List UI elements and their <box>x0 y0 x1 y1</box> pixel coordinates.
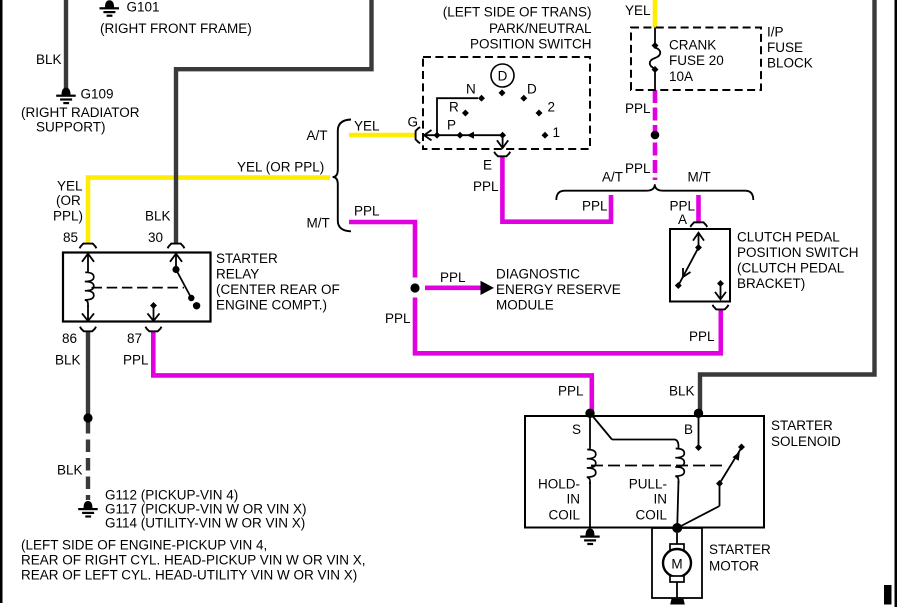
svg-text:S: S <box>572 422 581 437</box>
svg-text:I/P: I/P <box>767 25 784 40</box>
svg-text:(CLUTCH PEDAL: (CLUTCH PEDAL <box>737 261 845 276</box>
svg-text:N: N <box>466 82 476 97</box>
svg-text:FUSE: FUSE <box>767 40 803 55</box>
svg-text:2: 2 <box>548 100 556 115</box>
svg-text:PPL: PPL <box>582 199 608 214</box>
svg-text:(LEFT SIDE OF ENGINE-PICKUP VI: (LEFT SIDE OF ENGINE-PICKUP VIN 4, <box>21 538 267 553</box>
svg-text:BLK: BLK <box>57 463 83 478</box>
svg-text:A: A <box>678 212 687 227</box>
svg-text:PPL: PPL <box>385 311 411 326</box>
svg-text:PPL: PPL <box>625 101 651 116</box>
svg-text:(CENTER REAR OF: (CENTER REAR OF <box>216 282 340 297</box>
svg-text:YEL: YEL <box>625 3 651 18</box>
svg-text:M/T: M/T <box>688 170 711 185</box>
svg-text:PPL: PPL <box>558 384 584 399</box>
svg-text:PPL): PPL) <box>53 209 83 224</box>
svg-text:BLK: BLK <box>55 353 81 368</box>
svg-text:PPL: PPL <box>689 329 715 344</box>
svg-text:B: B <box>684 422 693 437</box>
svg-text:(RIGHT RADIATOR: (RIGHT RADIATOR <box>21 105 140 120</box>
svg-text:R: R <box>449 100 459 115</box>
svg-text:FUSE 20: FUSE 20 <box>669 53 724 68</box>
svg-text:CRANK: CRANK <box>669 38 716 53</box>
svg-text:30: 30 <box>148 230 163 245</box>
svg-text:87: 87 <box>127 331 142 346</box>
svg-text:85: 85 <box>63 230 78 245</box>
svg-text:D: D <box>527 82 537 97</box>
svg-text:E: E <box>483 158 492 173</box>
svg-text:REAR OF RIGHT CYL. HEAD-PICKUP: REAR OF RIGHT CYL. HEAD-PICKUP VIN W OR … <box>21 553 366 568</box>
svg-text:M/T: M/T <box>307 216 330 231</box>
svg-text:STARTER: STARTER <box>216 251 278 266</box>
svg-text:A/T: A/T <box>602 170 623 185</box>
svg-text:BRACKET): BRACKET) <box>737 276 805 291</box>
svg-text:P: P <box>447 118 456 133</box>
svg-text:G112 (PICKUP-VIN 4): G112 (PICKUP-VIN 4) <box>105 488 238 503</box>
svg-text:COIL: COIL <box>635 508 667 523</box>
svg-text:(OR: (OR <box>56 193 81 208</box>
svg-text:IN: IN <box>567 492 581 507</box>
svg-text:STARTER: STARTER <box>709 542 771 557</box>
svg-text:M: M <box>671 557 682 572</box>
svg-text:RELAY: RELAY <box>216 267 259 282</box>
svg-text:G117 (PICKUP-VIN W OR VIN X): G117 (PICKUP-VIN W OR VIN X) <box>105 502 307 517</box>
svg-text:(LEFT SIDE OF TRANS): (LEFT SIDE OF TRANS) <box>443 5 592 20</box>
svg-text:REAR OF LEFT CYL. HEAD-UTILITY: REAR OF LEFT CYL. HEAD-UTILITY VIN W OR … <box>21 568 357 583</box>
svg-text:SOLENOID: SOLENOID <box>771 434 841 449</box>
svg-text:BLK: BLK <box>145 209 171 224</box>
svg-text:YEL (OR PPL): YEL (OR PPL) <box>237 160 324 175</box>
svg-text:DIAGNOSTIC: DIAGNOSTIC <box>496 267 580 282</box>
svg-text:PPL: PPL <box>473 179 499 194</box>
svg-text:BLK: BLK <box>669 384 695 399</box>
svg-text:IN: IN <box>654 492 668 507</box>
svg-text:PARK/NEUTRAL: PARK/NEUTRAL <box>489 21 592 36</box>
svg-text:BLK: BLK <box>36 52 62 67</box>
svg-text:STARTER: STARTER <box>771 418 833 433</box>
svg-text:ENERGY RESERVE: ENERGY RESERVE <box>496 282 621 297</box>
svg-text:PPL: PPL <box>625 161 651 176</box>
svg-text:10A: 10A <box>669 69 693 84</box>
svg-text:CLUTCH PEDAL: CLUTCH PEDAL <box>737 230 840 245</box>
svg-text:POSITION SWITCH: POSITION SWITCH <box>737 245 859 260</box>
svg-text:YEL: YEL <box>354 119 380 134</box>
svg-text:PPL: PPL <box>440 270 466 285</box>
svg-text:POSITION SWITCH: POSITION SWITCH <box>470 37 592 52</box>
svg-text:86: 86 <box>62 331 77 346</box>
svg-text:PPL: PPL <box>123 353 149 368</box>
svg-text:BLOCK: BLOCK <box>767 56 813 71</box>
svg-text:YEL: YEL <box>57 179 83 194</box>
svg-text:PULL-: PULL- <box>629 477 667 492</box>
svg-text:G109: G109 <box>81 87 114 102</box>
svg-text:D: D <box>498 69 508 84</box>
svg-text:PPL: PPL <box>354 204 380 219</box>
svg-text:MODULE: MODULE <box>496 298 554 313</box>
svg-text:COIL: COIL <box>548 508 580 523</box>
svg-text:G: G <box>408 115 419 130</box>
svg-text:SUPPORT): SUPPORT) <box>36 120 106 135</box>
svg-text:ENGINE COMPT.): ENGINE COMPT.) <box>216 298 327 313</box>
svg-text:MOTOR: MOTOR <box>709 559 759 574</box>
svg-text:G101: G101 <box>127 0 160 15</box>
svg-text:(RIGHT FRONT FRAME): (RIGHT FRONT FRAME) <box>100 21 252 36</box>
svg-text:1: 1 <box>553 125 561 140</box>
svg-text:A/T: A/T <box>307 128 328 143</box>
svg-text:HOLD-: HOLD- <box>538 477 580 492</box>
svg-text:G114 (UTILITY-VIN W OR VIN X): G114 (UTILITY-VIN W OR VIN X) <box>105 516 305 531</box>
